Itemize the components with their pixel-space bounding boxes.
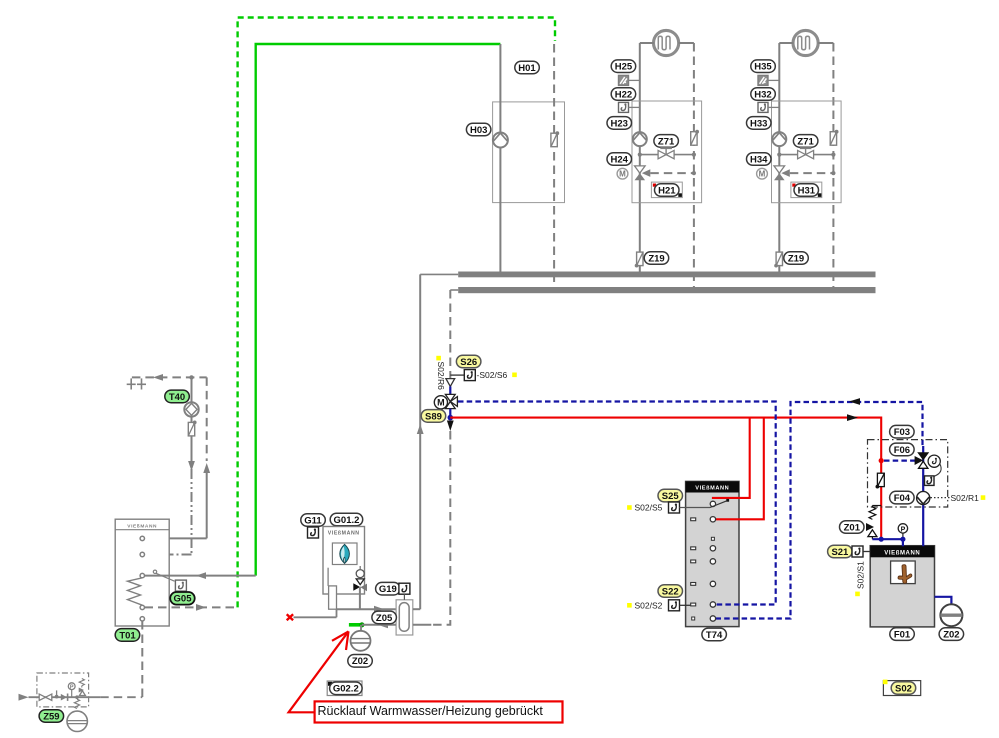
svg-text:H32: H32 bbox=[754, 89, 771, 100]
svg-text:M: M bbox=[437, 398, 445, 408]
svg-text:F01: F01 bbox=[894, 630, 911, 641]
svg-text:S21: S21 bbox=[831, 547, 849, 558]
svg-text:Z59: Z59 bbox=[43, 711, 59, 722]
svg-text:Rücklauf Warmwasser/Heizung ge: Rücklauf Warmwasser/Heizung gebrückt bbox=[318, 704, 544, 718]
svg-text:G02.2: G02.2 bbox=[333, 684, 359, 695]
svg-text:H03: H03 bbox=[470, 125, 487, 136]
svg-text:VIEßMANN: VIEßMANN bbox=[884, 550, 920, 556]
svg-text:G01.2: G01.2 bbox=[334, 515, 360, 526]
svg-text:S02/S5: S02/S5 bbox=[635, 503, 663, 513]
svg-text:S02/S2: S02/S2 bbox=[635, 600, 663, 610]
svg-text:H23: H23 bbox=[610, 118, 627, 129]
svg-text:T01: T01 bbox=[119, 630, 136, 641]
svg-text:F06: F06 bbox=[894, 445, 910, 456]
svg-text:S89: S89 bbox=[425, 411, 442, 422]
svg-text:F04: F04 bbox=[894, 493, 911, 504]
svg-text:Z02: Z02 bbox=[352, 656, 368, 667]
svg-text:Z01: Z01 bbox=[844, 522, 861, 533]
svg-text:H21: H21 bbox=[658, 185, 676, 196]
svg-text:M: M bbox=[759, 170, 766, 179]
svg-text:Z19: Z19 bbox=[788, 253, 804, 264]
svg-text:G11: G11 bbox=[304, 515, 322, 526]
svg-text:G05: G05 bbox=[174, 594, 193, 605]
svg-text:-S02/S6: -S02/S6 bbox=[477, 370, 508, 380]
svg-text:S02/R1: S02/R1 bbox=[951, 493, 980, 503]
svg-text:T74: T74 bbox=[706, 630, 723, 641]
svg-text:H22: H22 bbox=[615, 89, 632, 100]
svg-text:S22: S22 bbox=[662, 586, 679, 597]
svg-text:M: M bbox=[619, 170, 626, 179]
svg-text:S02: S02 bbox=[895, 683, 912, 694]
svg-text:H01: H01 bbox=[518, 63, 536, 74]
svg-text:G19: G19 bbox=[379, 584, 397, 595]
svg-text:VIEßMANN: VIEßMANN bbox=[328, 531, 360, 537]
svg-text:VIEßMANN: VIEßMANN bbox=[695, 486, 729, 492]
svg-text:Z02: Z02 bbox=[943, 630, 959, 641]
svg-text:Z71: Z71 bbox=[658, 136, 675, 147]
svg-text:H35: H35 bbox=[754, 62, 772, 73]
svg-text:H33: H33 bbox=[750, 118, 767, 129]
svg-text:P: P bbox=[901, 526, 906, 533]
svg-text:F03: F03 bbox=[894, 427, 910, 438]
svg-text:S26: S26 bbox=[460, 357, 477, 368]
svg-text:H24: H24 bbox=[610, 154, 628, 165]
svg-text:H34: H34 bbox=[750, 154, 768, 165]
svg-text:Z71: Z71 bbox=[797, 136, 814, 147]
svg-text:H25: H25 bbox=[615, 62, 633, 73]
svg-text:S25: S25 bbox=[662, 491, 680, 502]
svg-text:VIEßMANN: VIEßMANN bbox=[127, 523, 157, 529]
svg-text:Z05: Z05 bbox=[376, 613, 393, 624]
svg-text:T40: T40 bbox=[169, 392, 185, 403]
svg-text:S02/R6: S02/R6 bbox=[436, 362, 446, 391]
svg-text:Z19: Z19 bbox=[648, 253, 664, 264]
svg-text:H31: H31 bbox=[798, 185, 816, 196]
svg-text:S02/S1: S02/S1 bbox=[856, 561, 866, 589]
